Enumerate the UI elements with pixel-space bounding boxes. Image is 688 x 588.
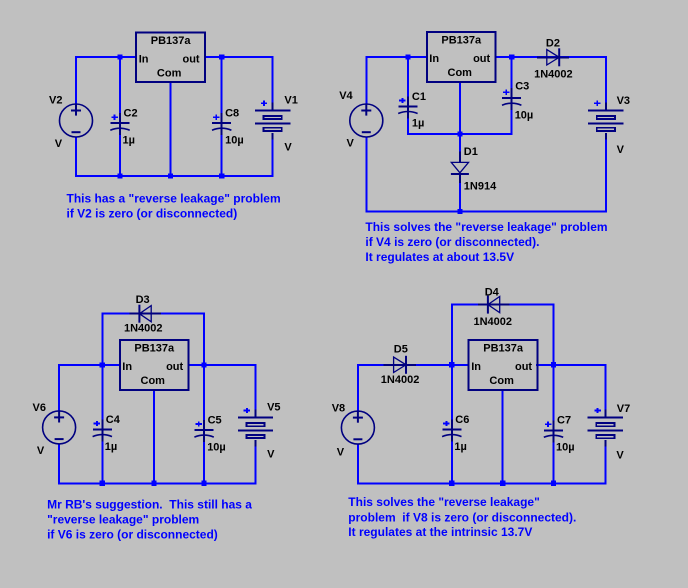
svg-text:Com: Com — [448, 67, 473, 79]
svg-text:if V4 is zero (or disconnected: if V4 is zero (or disconnected). — [365, 235, 539, 249]
wire: circuit2 ground rail — [365, 210, 607, 212]
svg-text:1µ: 1µ — [412, 117, 424, 129]
wire: V5 top lead — [255, 364, 257, 418]
voltage source V8 — [341, 411, 374, 444]
svg-text:V6: V6 — [33, 402, 46, 414]
battery V5 — [238, 410, 273, 447]
wire: circuit2 top rail (V4 to In pin) — [366, 56, 428, 58]
battery V1 — [255, 102, 290, 139]
svg-text:C8: C8 — [225, 108, 239, 120]
svg-text:D5: D5 — [394, 344, 408, 356]
wire: C8 bottom lead — [221, 130, 223, 177]
node: C3/out junction — [509, 54, 514, 59]
node: out pin junction circuit3 — [202, 362, 207, 367]
svg-text:out: out — [182, 54, 199, 66]
regulator U2 PB137a (circuit 2) — [427, 32, 496, 82]
wire: C2 top lead — [119, 57, 121, 123]
svg-text:V5: V5 — [267, 402, 280, 414]
wire: C4 top lead — [101, 365, 103, 430]
wire: V2 top lead — [75, 56, 77, 104]
node: C4/bottom rail junction — [100, 481, 105, 486]
wire: C7 bottom lead — [553, 437, 555, 484]
wire: V8 to D5 lead — [358, 364, 393, 366]
wire: D4 loop left vertical — [451, 304, 453, 365]
wire: V8 top lead — [357, 364, 359, 411]
svg-text:PB137a: PB137a — [151, 35, 192, 47]
wire: D3 loop left vertical — [101, 313, 103, 365]
svg-text:10µ: 10µ — [207, 441, 226, 453]
wire: C8 top lead — [221, 57, 223, 123]
svg-text:V4: V4 — [339, 90, 353, 102]
node: C8/top rail junction — [219, 54, 224, 59]
wire: C3 top lead — [511, 57, 513, 98]
wire: V3 bottom lead — [605, 140, 607, 213]
svg-text:In: In — [429, 53, 439, 65]
node: Com/bottom rail junction circuit4 — [500, 481, 505, 486]
wire: Com pin lead U1 — [170, 82, 172, 176]
wire: C4 bottom lead — [101, 436, 103, 483]
svg-text:V: V — [617, 144, 625, 156]
diode D2 1N4002 — [537, 48, 569, 66]
wire: out pin to D2 to V3 corner — [495, 56, 607, 58]
wire: V4 bottom lead — [365, 137, 367, 213]
wire: C5 top lead — [203, 365, 205, 430]
svg-text:D3: D3 — [136, 294, 150, 306]
capacitor C3 — [502, 88, 521, 110]
svg-text:V8: V8 — [332, 402, 345, 414]
node: Com/bottom rail junction — [168, 174, 173, 179]
wire: C2 bottom lead — [119, 130, 121, 177]
svg-text:This has a "reverse leakage" p: This has a "reverse leakage" problem — [67, 192, 281, 206]
svg-text:D4: D4 — [485, 286, 500, 298]
wire: C6 bottom lead — [451, 436, 453, 483]
wire: Com pin lead U3 — [153, 390, 155, 483]
regulator U4 PB137a (circuit 4) — [469, 340, 538, 390]
svg-text:V7: V7 — [617, 403, 630, 415]
svg-text:1N4002: 1N4002 — [124, 322, 163, 334]
svg-text:out: out — [473, 53, 490, 65]
wire: circuit4 bottom rail — [357, 482, 606, 484]
wire: D5 to In pin junction — [405, 364, 470, 366]
svg-text:V1: V1 — [284, 95, 297, 107]
wire: V1 bottom lead — [272, 139, 274, 178]
capacitor C1 — [398, 97, 417, 119]
capacitor C5 — [194, 420, 213, 442]
svg-text:Com: Com — [157, 68, 182, 80]
svg-text:V: V — [616, 450, 624, 462]
svg-text:10µ: 10µ — [225, 135, 244, 147]
polarity + of V5 — [244, 408, 250, 413]
svg-text:1N4002: 1N4002 — [381, 374, 420, 386]
svg-text:V2: V2 — [49, 95, 62, 107]
svg-text:V3: V3 — [617, 95, 630, 107]
svg-text:out: out — [515, 361, 532, 373]
svg-text:C3: C3 — [515, 81, 529, 93]
node: C6/bottom rail junction — [449, 481, 454, 486]
polarity + of C8 — [213, 115, 219, 120]
node: C5/bottom rail junction — [202, 481, 207, 486]
wire: V6 bottom lead — [58, 444, 60, 485]
svg-text:C6: C6 — [455, 414, 469, 426]
wire: out pin to V7 corner — [536, 364, 606, 366]
svg-text:if V2 is zero (or disconnected: if V2 is zero (or disconnected) — [67, 207, 238, 221]
wire: circuit3 pin rail (V6 to In pin) — [59, 364, 121, 366]
wire: V3 top lead — [605, 56, 607, 110]
node: out pin junction circuit4 — [551, 362, 556, 367]
polarity + of C2 — [111, 115, 117, 120]
svg-text:"reverse leakage" problem: "reverse leakage" problem — [47, 513, 199, 527]
wire: D3 loop top horizontal — [101, 313, 205, 315]
svg-text:out: out — [166, 361, 183, 373]
node: C1/top rail junction — [405, 54, 410, 59]
wire: D1 bottom lead — [459, 176, 461, 211]
wire: C5 bottom lead — [203, 436, 205, 483]
diode D3 1N4002 — [129, 305, 161, 323]
wire: Com pin lead U2 — [459, 82, 461, 134]
svg-text:problem if V8 is zero (or dis: problem if V8 is zero (or disconnected). — [348, 510, 576, 524]
svg-text:1N4002: 1N4002 — [534, 68, 573, 80]
svg-text:PB137a: PB137a — [134, 343, 175, 355]
svg-text:1µ: 1µ — [123, 135, 135, 147]
capacitor C6 — [442, 420, 461, 442]
svg-text:V: V — [284, 141, 292, 153]
wire: D1 top lead — [459, 134, 461, 163]
capacitor C2 — [110, 113, 129, 135]
svg-text:It regulates at the intrinsic: It regulates at the intrinsic 13.7V — [348, 525, 532, 539]
wire: V7 top lead — [604, 364, 606, 418]
svg-text:V: V — [37, 445, 45, 457]
wire: Com pin lead U4 — [502, 390, 504, 484]
svg-text:V: V — [55, 138, 63, 150]
node: In pin junction circuit4 — [449, 362, 454, 367]
svg-text:D2: D2 — [546, 37, 560, 49]
wire: V2 bottom lead — [75, 137, 77, 177]
wire: Com rail (C1 to C3) — [407, 133, 513, 135]
svg-text:1µ: 1µ — [454, 441, 466, 453]
voltage source V6 — [43, 411, 76, 444]
svg-text:PB137a: PB137a — [483, 343, 524, 355]
svg-text:In: In — [122, 361, 132, 373]
svg-text:if V6 is zero (or disconnected: if V6 is zero (or disconnected) — [47, 528, 218, 542]
wire: circuit1 bottom rail — [75, 175, 274, 177]
svg-text:C4: C4 — [106, 414, 121, 426]
wire: D4 loop top horizontal — [451, 304, 555, 306]
wire: V5 bottom lead — [255, 447, 257, 485]
wire: C3 bottom lead — [511, 105, 513, 136]
svg-text:In: In — [139, 54, 149, 66]
diode D5 1N4002 — [384, 356, 416, 374]
svg-text:1N914: 1N914 — [464, 181, 497, 193]
wire: D4 loop right vertical — [553, 304, 555, 365]
node: Com/bottom rail junction circuit3 — [151, 481, 156, 486]
svg-text:This solves the "reverse leaka: This solves the "reverse leakage" — [348, 495, 539, 509]
polarity + of C1 — [399, 98, 405, 103]
wire: C7 top lead — [553, 365, 555, 431]
svg-text:10µ: 10µ — [515, 110, 534, 122]
polarity + of C3 — [503, 90, 509, 95]
svg-text:1µ: 1µ — [105, 441, 117, 453]
battery V7 — [588, 410, 623, 447]
capacitor C8 — [212, 113, 231, 135]
node: C2/top rail junction — [117, 54, 122, 59]
svg-text:V: V — [267, 448, 275, 460]
regulator U3 PB137a (circuit 3) — [120, 340, 189, 390]
wire: C1 bottom lead — [407, 113, 409, 135]
diode D1 1N914 — [451, 151, 469, 182]
node: C2/bottom rail junction — [117, 174, 122, 179]
svg-text:Com: Com — [141, 375, 166, 387]
svg-text:1N4002: 1N4002 — [474, 316, 513, 328]
svg-text:V: V — [337, 446, 345, 458]
node: C8/bottom rail junction — [219, 174, 224, 179]
wire: C1 top lead — [407, 57, 409, 107]
svg-text:This solves the "reverse leaka: This solves the "reverse leakage" proble… — [365, 220, 607, 234]
wire: circuit1 out pin to V1 corner — [204, 56, 274, 58]
regulator U1 PB137a (circuit 1) — [136, 32, 205, 82]
polarity + of C4 — [94, 421, 100, 426]
svg-text:Com: Com — [489, 375, 514, 387]
capacitor C7 — [544, 420, 563, 442]
wire: V4 top lead — [365, 56, 367, 104]
polarity + of C7 — [545, 422, 551, 427]
polarity + of V1 — [261, 101, 267, 106]
wire: V8 bottom lead — [357, 444, 359, 484]
svg-text:10µ: 10µ — [556, 442, 575, 454]
polarity + of V7 — [594, 408, 600, 413]
svg-text:C7: C7 — [557, 415, 571, 427]
node: D1/ground rail junction — [457, 209, 462, 214]
node: In pin junction circuit3 — [100, 362, 105, 367]
wire: C6 top lead — [451, 365, 453, 430]
svg-text:Mr RB's suggestion. This stil: Mr RB's suggestion. This still has a — [47, 498, 252, 512]
battery V3 — [588, 102, 623, 139]
polarity + of C6 — [443, 421, 449, 426]
svg-text:C2: C2 — [124, 108, 138, 120]
svg-text:C5: C5 — [208, 414, 222, 426]
wire: D3 loop right vertical — [203, 313, 205, 365]
svg-text:PB137a: PB137a — [441, 35, 482, 47]
node: Com rail junction — [457, 131, 462, 136]
wire: circuit3 bottom rail — [58, 482, 256, 484]
wire: circuit1 top rail (V2 to In pin) — [76, 56, 137, 58]
polarity + of V3 — [594, 101, 600, 106]
wire: V1 top lead — [272, 56, 274, 103]
polarity + of C5 — [196, 422, 202, 427]
wire: V7 bottom lead — [604, 447, 606, 485]
diode D4 1N4002 — [478, 296, 510, 314]
svg-text:In: In — [471, 361, 481, 373]
svg-text:V: V — [347, 138, 355, 150]
svg-text:D1: D1 — [464, 146, 478, 158]
node: C7/bottom rail junction — [551, 481, 556, 486]
voltage source V2 — [60, 104, 93, 137]
wire: V6 top lead — [58, 364, 60, 411]
svg-text:It regulates at about 13.5V: It regulates at about 13.5V — [365, 250, 514, 264]
wire: out pin to V5 corner — [188, 364, 257, 366]
capacitor C4 — [93, 420, 112, 442]
svg-text:C1: C1 — [412, 91, 426, 103]
voltage source V4 — [350, 104, 383, 137]
